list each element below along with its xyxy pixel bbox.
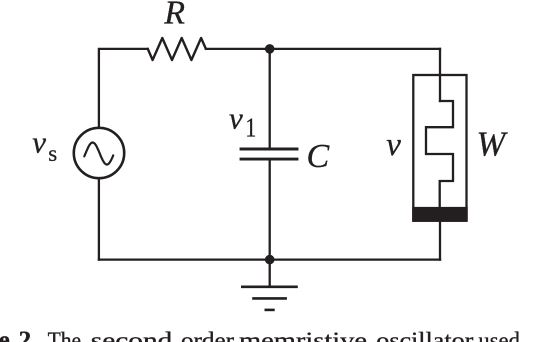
svg-text:Thesecondordermemristiveoscill: Thesecondordermemristiveoscillatorused: [48, 328, 521, 342]
svg-text:v: v: [386, 127, 401, 163]
svg-text:v: v: [32, 125, 46, 160]
svg-text:1: 1: [245, 113, 256, 143]
svg-text:v: v: [229, 101, 243, 136]
svg-text:R: R: [163, 0, 185, 32]
svg-text:s: s: [48, 141, 57, 166]
svg-text:W: W: [477, 125, 509, 163]
svg-text:C: C: [307, 138, 330, 175]
svg-text:e2.: e2.: [0, 327, 37, 342]
